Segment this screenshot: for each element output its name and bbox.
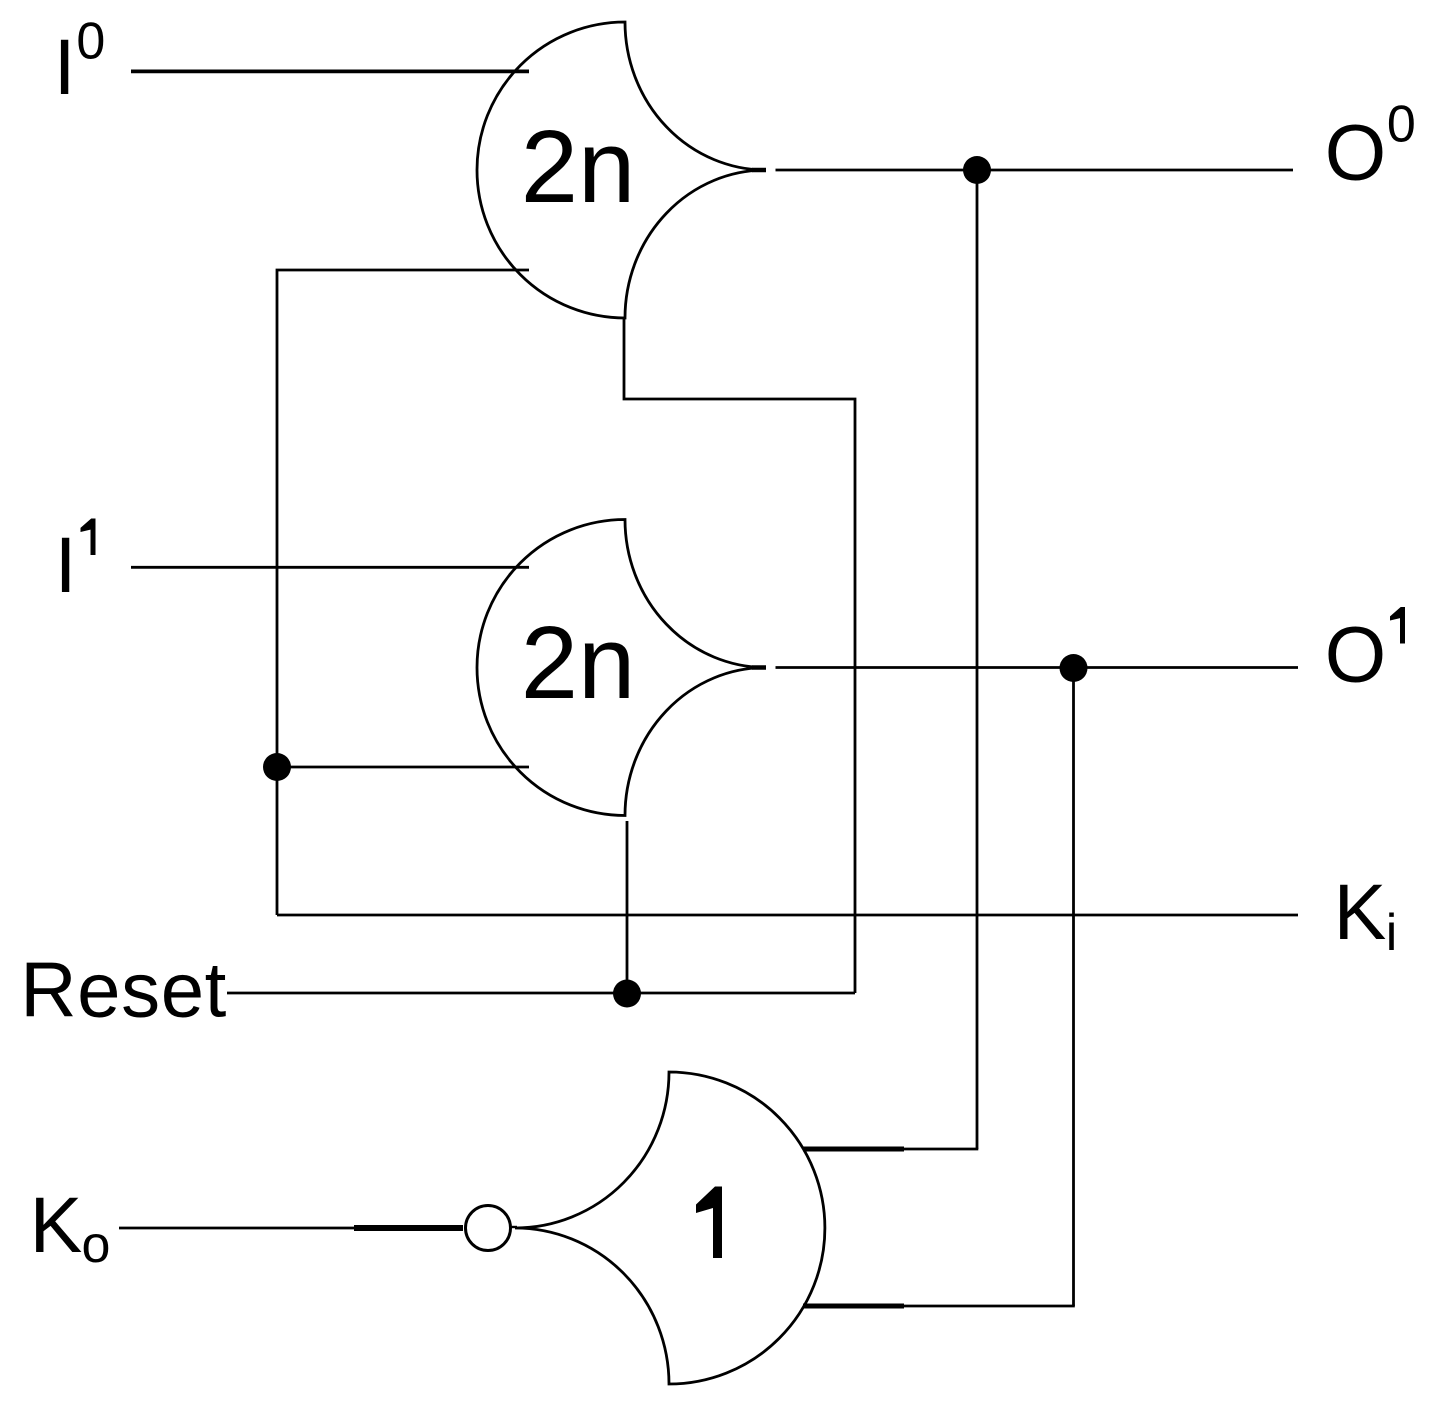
wire U1 output to O0 [776,169,1294,172]
node junction O0 [963,156,991,184]
svg-text:Reset: Reset [20,946,227,1034]
wire feedback left vertical [277,270,529,915]
wire O0 junction down to U3 top input [976,170,979,1149]
wire O1 junction down to U3 bottom input [1072,668,1075,1306]
wire I0 input [131,70,529,74]
label Ki [1334,867,1398,962]
wire U3 bottom input thin [904,1305,1075,1308]
wire U1 bottom to feedback box [624,318,855,993]
label I1 [55,519,96,610]
wire Ko thick segment [354,1225,463,1231]
label I0 [54,13,106,112]
node junction Reset [613,980,641,1008]
wire Ko input [119,1227,354,1230]
inverter bubble [466,1206,511,1251]
svg-text:K: K [1334,867,1387,956]
svg-text:O: O [1325,108,1386,197]
svg-text:o: o [82,1216,111,1274]
gate U3 (1) [515,1072,825,1384]
wire U2 output to O1 [776,666,1299,669]
svg-text:2n: 2n [521,109,636,224]
wire U3 top input thin [904,1148,978,1151]
label O0 [1325,96,1416,197]
svg-text:0: 0 [76,13,105,71]
svg-text:0: 0 [1387,96,1416,154]
wire U3 bottom input thick [803,1304,904,1309]
wire Ki feedback horizontal [277,914,1298,917]
wire U2 second input [277,766,529,769]
wire U2 bottom down to reset line [626,821,629,993]
svg-text:2n: 2n [521,605,636,720]
wire I1 input [131,566,529,569]
label Ko [30,1180,111,1274]
label O1 [1325,607,1405,699]
wire Reset [227,992,855,995]
svg-text:K: K [30,1180,83,1269]
gate U1 (2n) [477,22,766,318]
svg-text:I: I [54,22,76,111]
svg-text:I: I [55,520,77,609]
svg-text:O: O [1325,610,1386,699]
node junction O1 [1060,654,1088,682]
wire U3 top input thick [803,1147,904,1152]
node junction U2 second input [263,753,291,781]
wire bubble to U3 cusp [509,1226,517,1228]
svg-text:i: i [1386,904,1398,962]
gate U2 (2n) [477,520,766,816]
